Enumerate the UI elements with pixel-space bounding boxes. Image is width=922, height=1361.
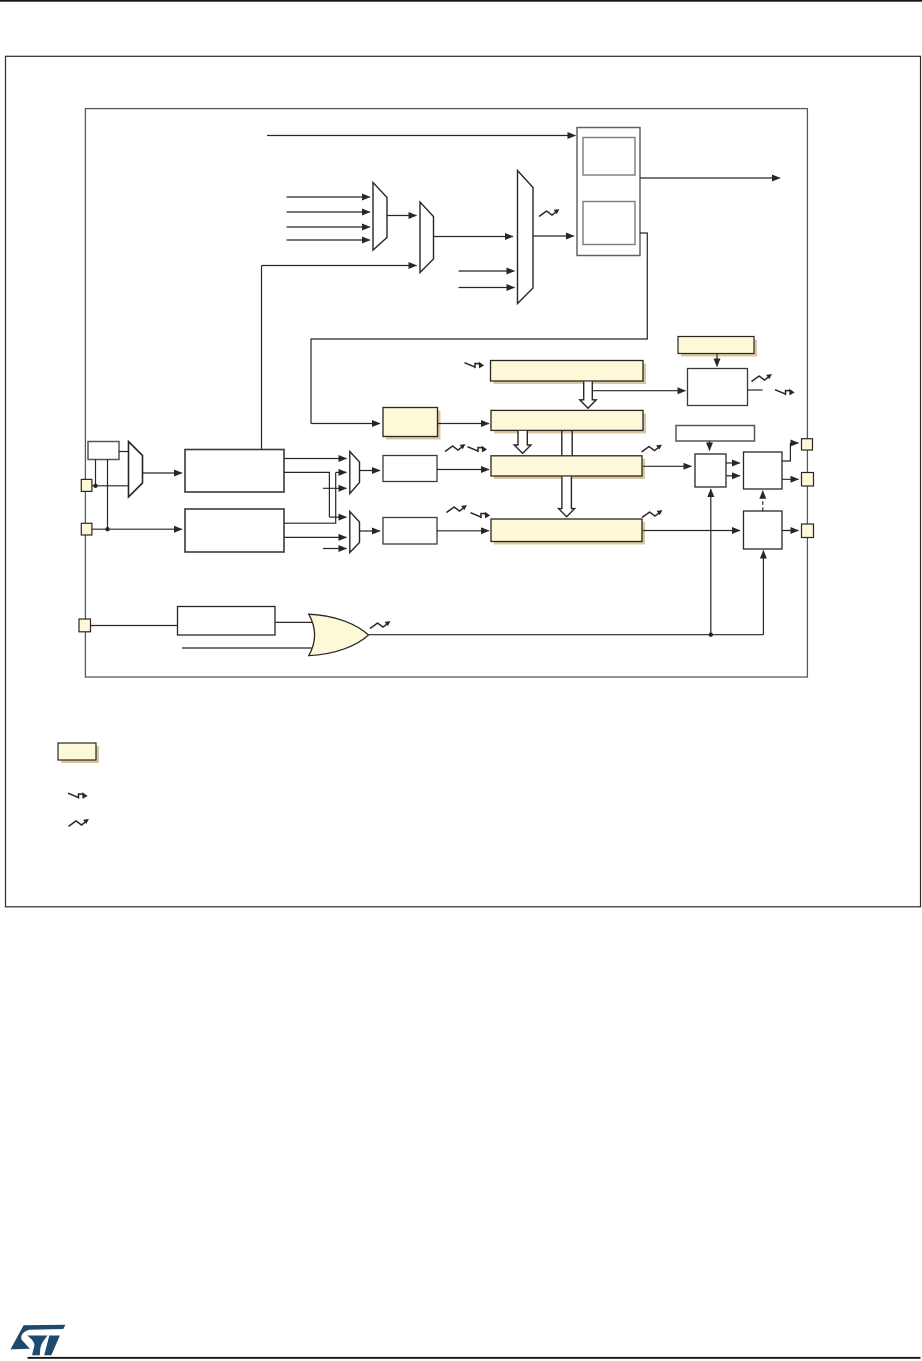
control register box (white long) — [676, 426, 755, 442]
wire output arrow right from capture block — [640, 177, 780, 179]
wire pin ETR to latch box — [91, 625, 178, 627]
dashed wire S3 to S2 — [762, 491, 764, 511]
interrupt symbol left of box E — [471, 512, 491, 519]
mux M2 — [420, 202, 434, 273]
wire D register to S1 — [643, 465, 692, 467]
wire pin TI2 to block F2 — [92, 528, 182, 530]
figure frame — [6, 56, 921, 907]
wire up into S1 bottom — [710, 489, 712, 635]
event symbol left of box E — [447, 505, 467, 512]
latch box (white, bottom) — [178, 607, 276, 636]
wire input mux to block F1 — [143, 472, 183, 474]
wire S1 to S2 upper — [726, 462, 740, 464]
wire OR gate output line — [369, 634, 763, 636]
wire F2 output 2 to mux M6 — [284, 536, 347, 538]
event symbol right of box D — [642, 445, 662, 452]
wire mux M1 output to mux M2 — [387, 215, 417, 217]
pin OC3 — [802, 524, 814, 538]
OR gate G1 — [309, 614, 369, 655]
wire feedback into mux M2 lower input — [261, 266, 263, 450]
wire TRC stub into mux M5 — [323, 487, 347, 489]
node junction on OR output — [709, 633, 713, 637]
event symbol above clock mux output — [539, 209, 559, 216]
wire F1 output 1 to mux M5 — [284, 458, 347, 460]
wire S3 to pin OC3 — [782, 530, 799, 532]
output stage box S3 — [744, 511, 783, 549]
pin OC2 — [802, 473, 814, 487]
wire from U1 down to UEV box — [716, 354, 718, 367]
wire clock box drop 1 — [95, 460, 97, 486]
interrupt symbol left of box D — [468, 446, 488, 453]
wire mux M2 output to clock mux — [434, 236, 514, 238]
register box E (yellow long, capture/compare 2) — [491, 519, 645, 545]
mux M4 input mux — [129, 442, 143, 498]
input filter box F1 — [185, 450, 284, 493]
capture block inner register 1 — [583, 138, 635, 176]
ST logo — [11, 1325, 66, 1355]
legend interrupt symbol — [68, 792, 88, 799]
block arrow from C to D — [514, 431, 531, 454]
event symbol right of U2 — [752, 374, 772, 381]
block arrow from B to C — [580, 382, 596, 409]
wire clock mux output to capture block — [533, 235, 574, 237]
wire F2 output 1 cross to mux M5 — [284, 472, 336, 523]
pin TI1 — [81, 479, 92, 491]
input filter box F2 — [185, 509, 284, 552]
wire mux M1 input 4 — [287, 239, 371, 241]
wire S1 to S2 lower — [726, 475, 740, 477]
mux M6 — [350, 512, 360, 553]
mux M1 — [373, 183, 387, 251]
wire S2 to pin OC2 — [782, 478, 799, 480]
wire clock mux input b — [459, 287, 515, 289]
wire mux M6 to R2 — [360, 530, 381, 532]
pin TI2 — [81, 523, 92, 535]
interrupt symbol right of U2 — [775, 389, 795, 396]
clock source box (small white, top left) — [88, 442, 119, 460]
wire TRC stub into mux M6 — [323, 548, 347, 550]
wire mux M5 to R1 — [360, 470, 381, 472]
legend event symbol — [69, 819, 89, 826]
prescaler box P (small yellow) — [383, 408, 441, 440]
capture block inner register 2 — [583, 202, 635, 245]
wire up into S3 bottom — [762, 551, 764, 635]
page top rule — [0, 0, 922, 2]
wire from control register down to output stage 1 — [709, 441, 711, 451]
mux M5 — [350, 452, 360, 494]
wire clock mux input a — [459, 270, 515, 272]
wire latch to OR gate — [275, 621, 314, 623]
capture/compare block outer — [577, 128, 640, 256]
node junction pin2 line — [105, 527, 109, 531]
wire clock box drop 2 — [107, 460, 109, 530]
wire clock box to input mux — [119, 451, 129, 453]
wire second OR input — [182, 647, 314, 649]
wire top input arrow into capture block — [267, 135, 576, 137]
wire branch from block arrow to U2 — [592, 390, 685, 392]
pin OC1 (top right) — [802, 439, 813, 450]
wire S2 hook to pin OC1 — [782, 443, 790, 461]
wire R2 to E register — [437, 530, 489, 532]
wire mux M1 input 3 — [287, 226, 371, 228]
event symbol right of box E — [642, 510, 662, 517]
event symbol above OR output — [370, 621, 390, 628]
wire mux M1 input 2 — [287, 211, 371, 213]
output stage box S1 — [695, 454, 726, 487]
register box D (yellow long, capture/compare 1) — [491, 456, 645, 479]
node junction pin1 line — [93, 484, 97, 488]
legend yellow box — [58, 743, 99, 763]
wire stub from U2 right — [748, 389, 763, 391]
event symbol left of box D — [445, 444, 465, 451]
wire mux M1 input 1 — [287, 196, 371, 198]
register box U1 (yellow, top right) — [678, 337, 757, 357]
wire E register to S3 — [643, 530, 740, 532]
register box C (yellow long, counter) — [491, 410, 646, 433]
prescaler box R2 (white, row2) — [383, 518, 437, 545]
wire R1 to D register — [437, 469, 489, 471]
output stage box S2 — [744, 452, 783, 489]
interrupt symbol left of box B — [465, 362, 485, 369]
wire F1 output 2 cross to mux M6 — [284, 472, 329, 517]
mux M3 tall clock mux — [518, 171, 534, 304]
control box U2 (white) — [688, 369, 748, 406]
pin ETR — [79, 619, 91, 632]
wire pin TI1 to input mux — [92, 485, 129, 487]
wire prescaler to counter — [438, 423, 490, 425]
block arrow from D to E — [559, 477, 575, 517]
prescaler box R1 (white, row1) — [383, 456, 437, 482]
page bottom rule — [28, 1357, 921, 1359]
diagram border box — [85, 109, 807, 677]
bus connector from C to D — [562, 431, 572, 455]
register box B (yellow long, auto-reload) — [491, 361, 647, 385]
wire feedback from capture block down-left to prescaler — [311, 233, 647, 424]
